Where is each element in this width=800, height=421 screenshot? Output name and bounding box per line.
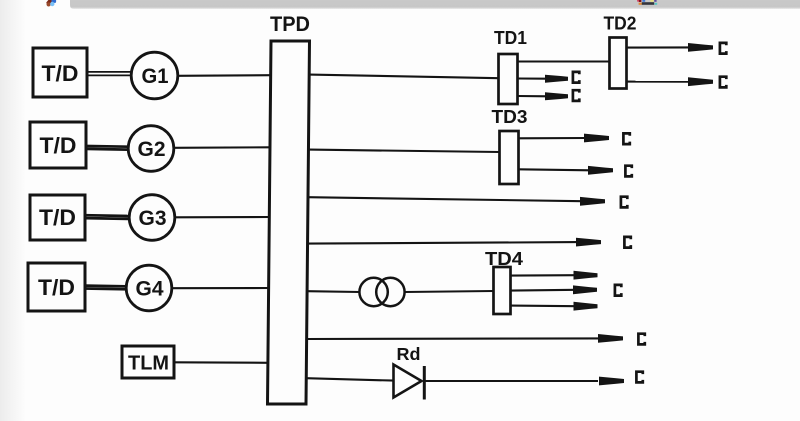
wire TD4 output 3 — [511, 305, 577, 308]
svg-text:G2: G2 — [138, 138, 166, 161]
diode Rd — [394, 365, 425, 400]
arrowhead (row 4) — [576, 238, 601, 247]
busbar TPD — [268, 41, 310, 404]
wire TD3 output 2 — [519, 169, 591, 170]
arrowhead (TD4 out 2) — [573, 285, 597, 294]
wire TPD row 4 — [308, 242, 578, 244]
wire TPD to transformer — [308, 290, 361, 293]
wire TD2 output 2 — [627, 81, 693, 83]
block TD2 — [610, 38, 627, 89]
wire diode to arrow — [426, 380, 599, 382]
svg-text:G3: G3 — [139, 207, 167, 230]
arrowhead (TD2 out 1) — [688, 43, 713, 52]
icon fragment (brush) — [46, 0, 56, 7]
icon fragment (favicon) — [637, 0, 657, 5]
svg-text:TPD: TPD — [270, 13, 310, 36]
wire shaft T/D1-G1 lower — [87, 74, 132, 76]
arrowhead (TD1 out 1) — [545, 75, 568, 83]
block T/D unit 1 — [33, 48, 87, 97]
arrowhead (TD4 out 1) — [574, 271, 598, 280]
wire TPD to diode — [306, 378, 394, 380]
svg-text:TD1: TD1 — [494, 28, 527, 48]
block T/D unit 4 — [28, 263, 85, 311]
load label C (TD1 out 2) — [573, 90, 579, 101]
arrowhead (TD4 out 3) — [574, 302, 598, 311]
toolbar strip fragment — [70, 0, 800, 9]
load label C (TD2 out 2) — [720, 77, 726, 88]
wire TD1 output 1 — [518, 77, 548, 79]
svg-text:G1: G1 — [142, 65, 169, 88]
arrowhead (TD3 out 2) — [588, 166, 613, 175]
svg-text:T/D: T/D — [40, 133, 77, 158]
wire TD2 output 1 — [627, 46, 693, 48]
generator G3 — [129, 195, 175, 241]
wire TLM to TPD — [174, 361, 269, 364]
load label C (row 3) — [621, 197, 627, 208]
wire TD4 output 2 — [511, 289, 577, 292]
wire TPD to TD3 — [309, 150, 500, 152]
block T/D unit 3 — [30, 195, 85, 240]
wire G1 to TPD — [178, 74, 271, 77]
block TD4 — [494, 267, 511, 314]
arrowhead (row 6) — [598, 334, 623, 343]
wire shaft T/D1-G1 upper — [87, 71, 132, 73]
block TD1 — [499, 54, 518, 104]
generator G1 — [131, 52, 178, 99]
load label C (TD4 outs) — [615, 285, 621, 296]
svg-text:Rd: Rd — [397, 344, 421, 364]
block TLM — [122, 346, 174, 378]
svg-text:T/D: T/D — [39, 205, 76, 230]
load label C (TD2 out 1) — [720, 43, 726, 54]
arrowhead (TD3 out 1) — [584, 134, 609, 143]
wire shaft T/D3-G3 upper — [85, 214, 130, 218]
arrowhead (TD1 out 2) — [545, 92, 568, 100]
svg-text:T/D: T/D — [42, 61, 79, 86]
transformer T1 — [359, 278, 404, 306]
wire TPD row 3 — [308, 197, 582, 201]
wire TPD row 6 — [307, 337, 598, 340]
wire TPD to TD1 — [309, 75, 499, 79]
wire transformer to TD4 — [405, 291, 494, 292]
wire G4 to TPD — [172, 287, 270, 289]
wire TD4 output 1 — [511, 274, 577, 276]
arrowhead (TD2 out 2) — [688, 77, 713, 86]
wire G3 to TPD — [175, 216, 270, 218]
wire TD1 output 2 — [518, 95, 548, 97]
svg-text:T/D: T/D — [38, 275, 75, 300]
block T/D unit 2 — [30, 122, 86, 168]
load label C (TD3 out 1) — [623, 133, 629, 144]
wire shaft T/D4-G4 lower — [85, 287, 127, 290]
svg-text:G4: G4 — [136, 278, 164, 301]
generator G2 — [128, 126, 174, 172]
wire shaft T/D2-G2 lower — [86, 148, 129, 151]
load label C (row 7) — [636, 372, 642, 383]
wire shaft T/D3-G3 lower — [85, 217, 130, 220]
load label C (TD1 out 1) — [573, 72, 579, 83]
svg-text:TD3: TD3 — [492, 107, 528, 127]
load label C (TD3 out 2) — [625, 166, 631, 177]
wire shaft T/D4-G4 upper — [85, 284, 127, 287]
arrowhead (row 7) — [599, 377, 624, 386]
wire TD1 to TD2 — [518, 60, 610, 62]
svg-text:TD2: TD2 — [604, 14, 637, 34]
wire TD3 output 1 — [519, 137, 587, 139]
load label C (row 6) — [638, 334, 644, 345]
svg-text:TD4: TD4 — [485, 249, 523, 269]
block TD3 — [500, 131, 519, 184]
svg-text:TLM: TLM — [128, 353, 169, 375]
generator G4 — [126, 265, 172, 311]
wire G2 to TPD — [174, 146, 271, 149]
wire shaft T/D2-G2 upper — [86, 145, 129, 148]
arrowhead (row 3) — [580, 197, 605, 206]
load label C (row 4) — [624, 237, 630, 248]
